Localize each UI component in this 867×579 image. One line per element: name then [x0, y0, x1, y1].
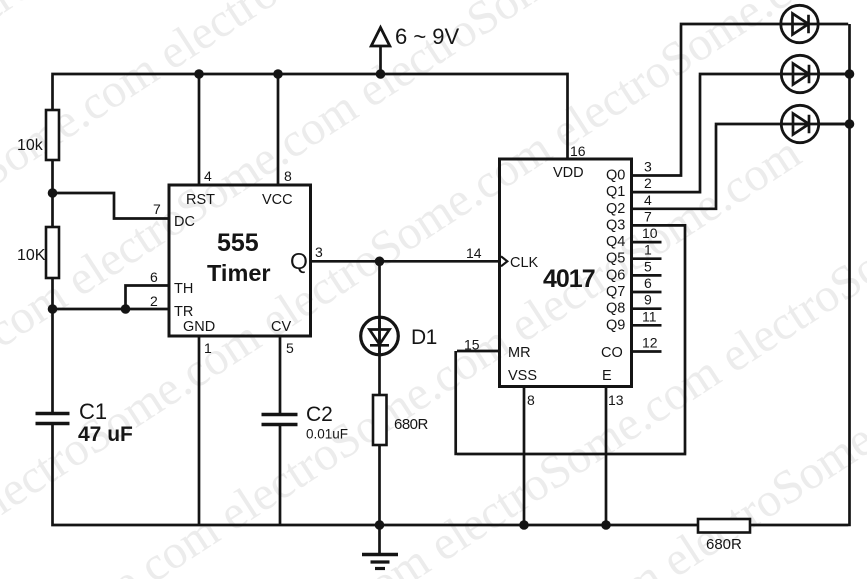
svg-text:Q4: Q4: [606, 234, 625, 250]
svg-text:GND: GND: [183, 319, 215, 335]
svg-text:2: 2: [150, 293, 158, 309]
svg-text:D1: D1: [411, 326, 437, 349]
svg-text:0.01uF: 0.01uF: [306, 427, 348, 442]
svg-text:10: 10: [642, 225, 658, 241]
svg-text:680R: 680R: [706, 536, 742, 553]
svg-text:9: 9: [644, 292, 652, 308]
svg-text:8: 8: [284, 168, 292, 184]
svg-text:7: 7: [644, 208, 652, 224]
svg-text:TH: TH: [174, 281, 193, 297]
svg-text:5: 5: [644, 258, 652, 274]
svg-text:6: 6: [150, 269, 158, 285]
svg-text:E: E: [602, 368, 612, 384]
svg-text:4017: 4017: [543, 265, 595, 293]
svg-text:Q8: Q8: [606, 301, 625, 317]
svg-text:1: 1: [204, 340, 212, 356]
svg-text:Q9: Q9: [606, 317, 625, 333]
svg-text:10k: 10k: [17, 137, 44, 154]
svg-text:DC: DC: [174, 214, 195, 230]
svg-text:Q3: Q3: [606, 217, 625, 233]
svg-text:6 ~ 9V: 6 ~ 9V: [395, 24, 460, 49]
svg-text:CO: CO: [601, 345, 623, 361]
svg-text:C2: C2: [306, 403, 333, 426]
svg-text:Q1: Q1: [606, 184, 625, 200]
svg-text:1: 1: [644, 242, 652, 258]
svg-text:8: 8: [527, 392, 535, 408]
svg-text:12: 12: [642, 335, 658, 351]
svg-text:4: 4: [644, 192, 652, 208]
svg-text:3: 3: [644, 159, 652, 175]
svg-text:TR: TR: [174, 304, 193, 320]
svg-text:Q5: Q5: [606, 251, 625, 267]
svg-text:CV: CV: [271, 319, 291, 335]
svg-text:4: 4: [204, 168, 212, 184]
svg-text:Q0: Q0: [606, 168, 625, 184]
svg-text:555: 555: [217, 229, 259, 257]
svg-text:VDD: VDD: [553, 165, 584, 181]
svg-text:7: 7: [153, 201, 161, 217]
svg-text:16: 16: [570, 143, 586, 159]
svg-text:2: 2: [644, 175, 652, 191]
svg-text:13: 13: [608, 392, 624, 408]
svg-text:CLK: CLK: [510, 255, 539, 271]
svg-text:RST: RST: [186, 192, 215, 208]
svg-text:Q2: Q2: [606, 201, 625, 217]
svg-text:3: 3: [315, 244, 323, 260]
svg-text:15: 15: [464, 337, 480, 353]
svg-text:Q7: Q7: [606, 284, 625, 300]
svg-text:Q: Q: [290, 248, 308, 274]
svg-text:11: 11: [642, 308, 657, 324]
svg-text:VSS: VSS: [508, 368, 537, 384]
svg-text:Q6: Q6: [606, 267, 625, 283]
svg-text:C1: C1: [79, 399, 107, 424]
svg-text:MR: MR: [508, 345, 531, 361]
svg-text:47 uF: 47 uF: [78, 423, 133, 446]
svg-text:680R: 680R: [394, 416, 429, 433]
svg-text:VCC: VCC: [262, 192, 293, 208]
svg-text:5: 5: [286, 340, 294, 356]
svg-text:14: 14: [466, 245, 482, 261]
svg-text:Timer: Timer: [207, 260, 271, 286]
svg-text:6: 6: [644, 275, 652, 291]
svg-text:10K: 10K: [17, 247, 46, 264]
